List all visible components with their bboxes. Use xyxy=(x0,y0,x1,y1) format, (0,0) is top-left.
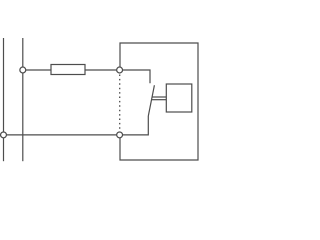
node on rail L1 xyxy=(1,132,7,138)
actuator box K1 xyxy=(166,84,192,112)
node on rail L2 xyxy=(20,67,26,73)
linkage line upper xyxy=(152,96,166,98)
vertical rail L2 xyxy=(22,38,24,161)
wire blade pivot to terminal B xyxy=(123,116,149,135)
wire resistor to terminal A xyxy=(85,69,117,71)
bottom wire node-L1 to terminal B xyxy=(7,134,117,136)
enclosure outline xyxy=(120,43,198,160)
wire node-L2 to resistor xyxy=(26,69,51,71)
switch blade S1 xyxy=(148,85,154,116)
terminal node A xyxy=(117,67,123,73)
resistor R1 xyxy=(51,65,85,75)
dashed boundary between terminals xyxy=(119,75,121,132)
terminal node B xyxy=(117,132,123,138)
wire terminal A to fixed contact xyxy=(123,70,150,83)
linkage line lower xyxy=(152,99,167,101)
vertical rail L1 xyxy=(3,38,5,161)
